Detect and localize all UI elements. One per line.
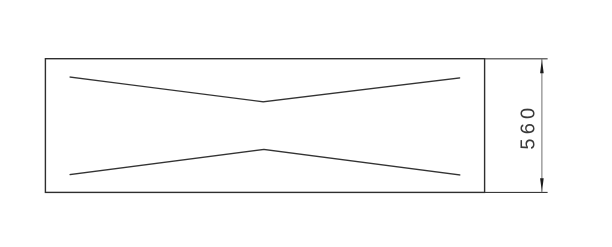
lower fold line	[70, 149, 460, 175]
svg-text:560: 560	[518, 104, 540, 150]
dimension line 560	[541, 59, 543, 192]
top arrowhead	[540, 59, 544, 73]
upper fold line	[70, 77, 460, 102]
panel outline rectangle	[45, 59, 484, 193]
bottom arrowhead	[540, 178, 544, 192]
top extension line	[485, 58, 548, 60]
bottom extension line	[485, 191, 548, 193]
